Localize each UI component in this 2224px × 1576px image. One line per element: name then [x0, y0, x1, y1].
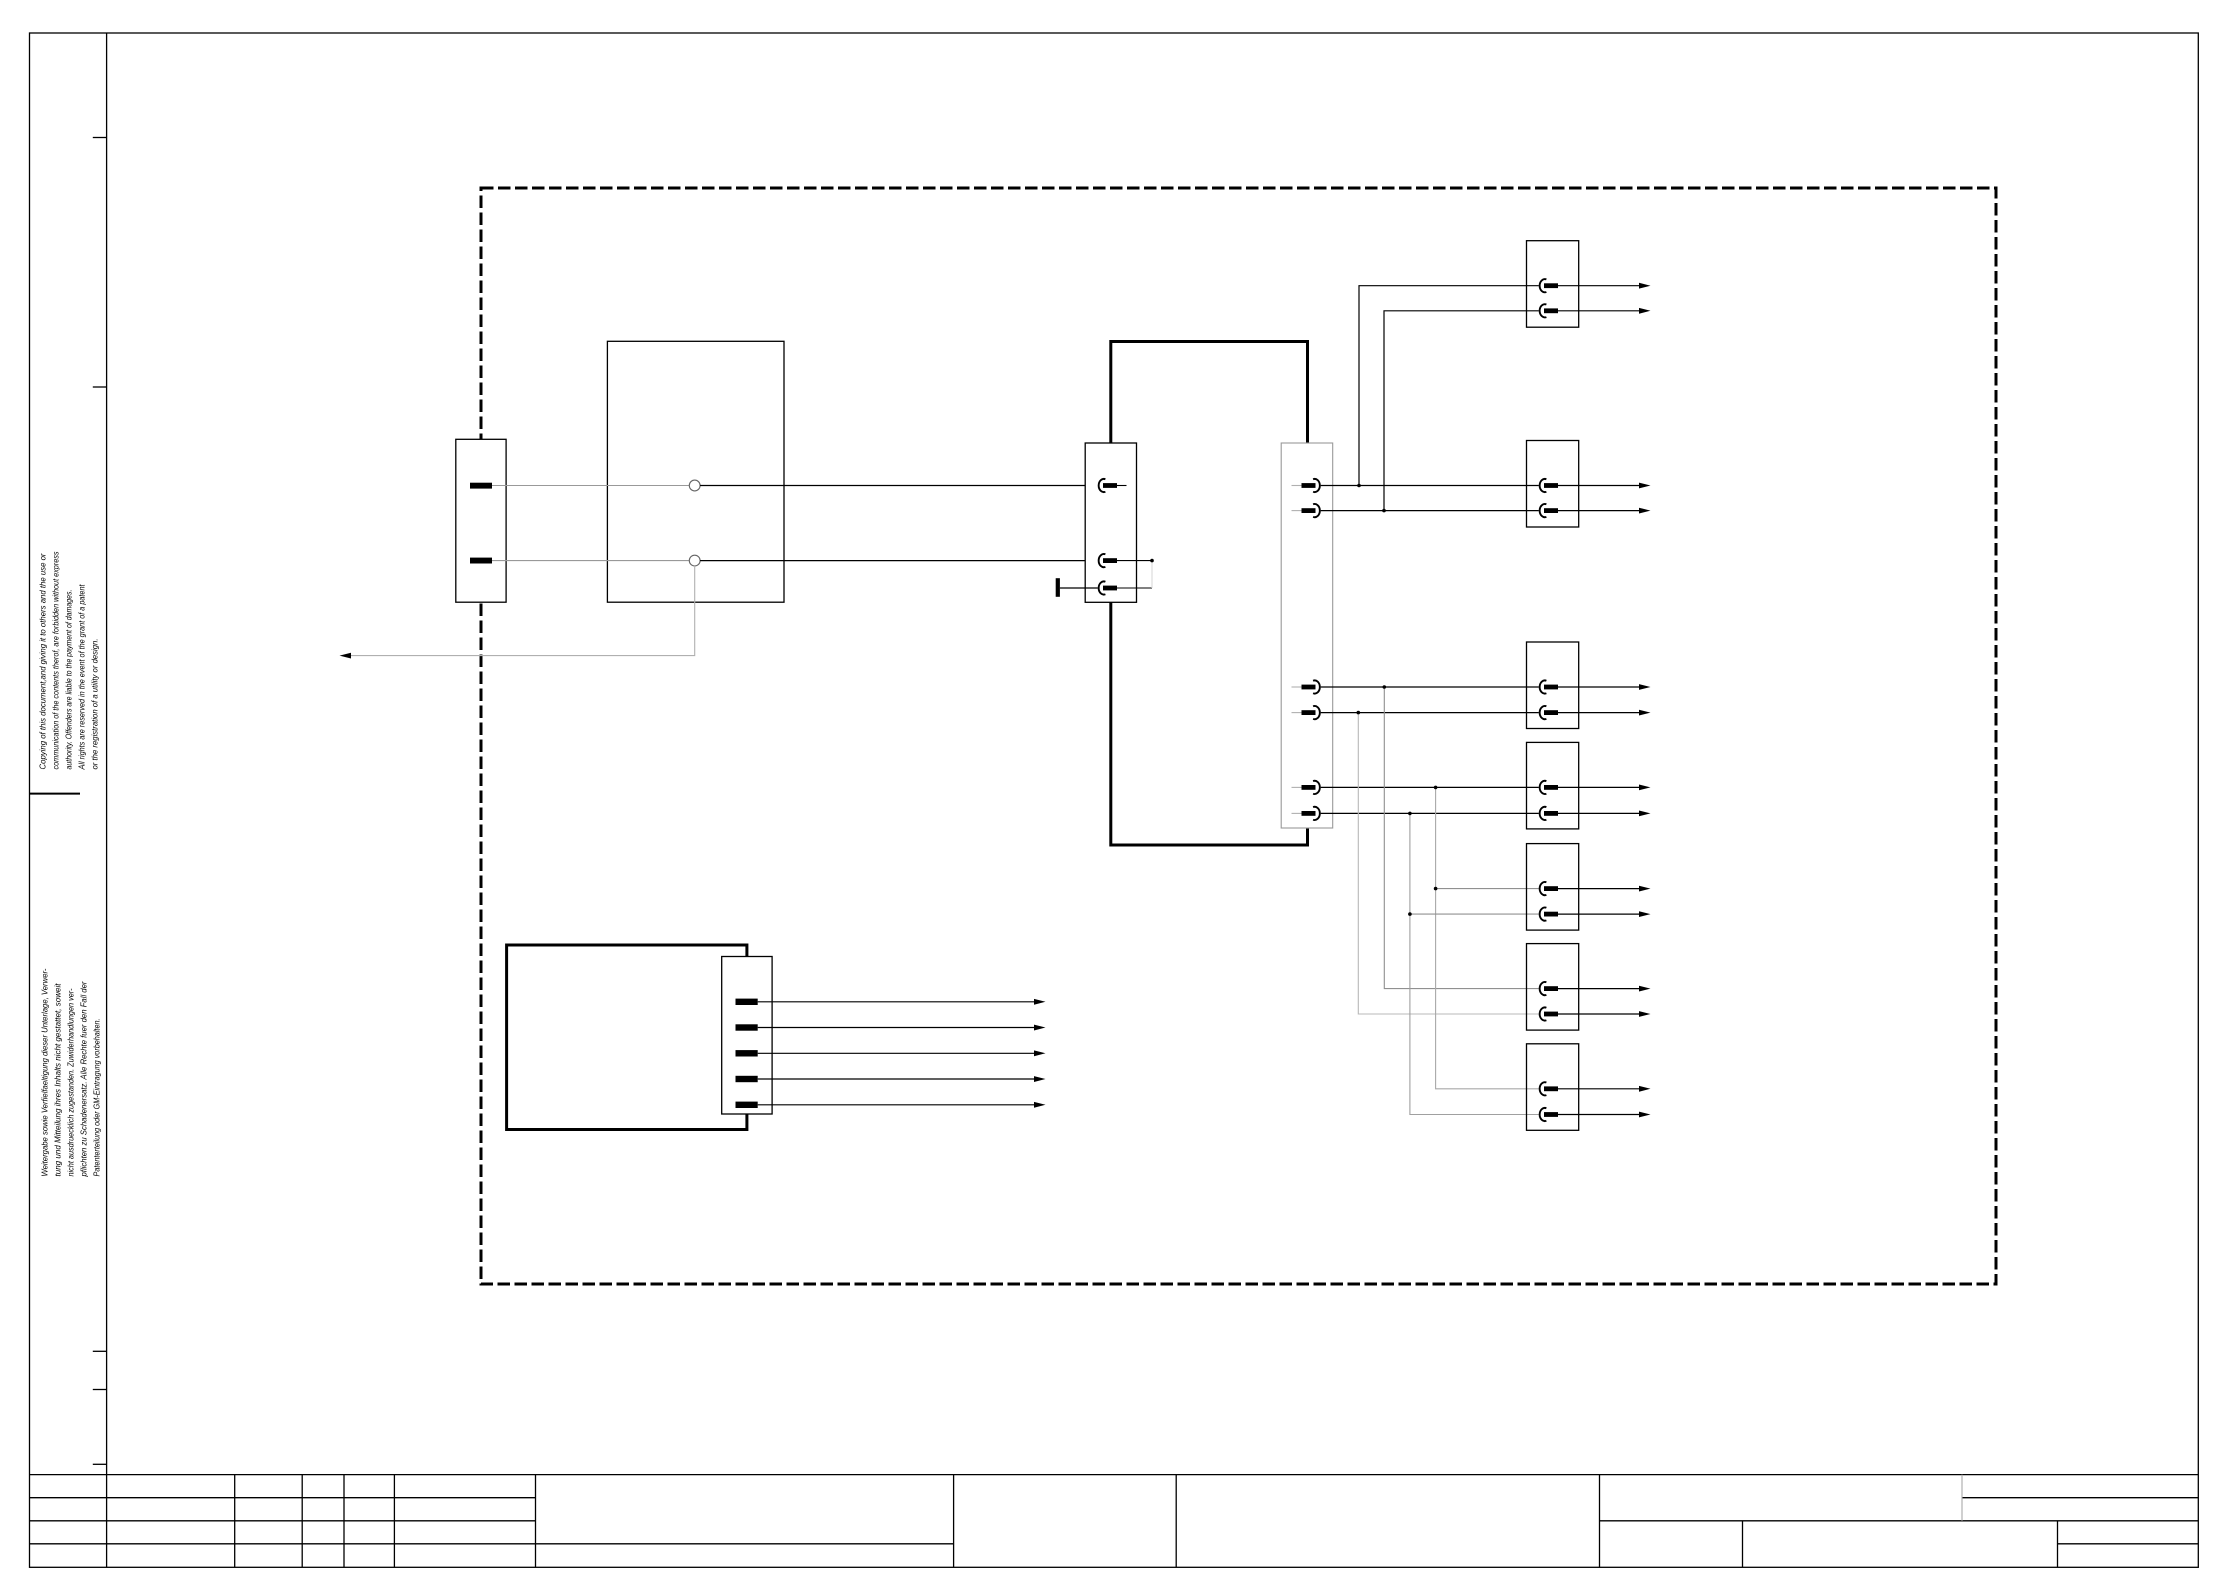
wire X2 pin2 to loads (net 2) [1321, 510, 1539, 512]
branch down net3 (grey) [1384, 687, 1539, 989]
junction net6 tap [1408, 912, 1412, 916]
branch down net4 (light grey) [1358, 713, 1539, 1014]
wire X2 pin6 (net 6) [1321, 812, 1539, 814]
svg-text:All rights are reserved in the: All rights are reserved in the event of … [76, 584, 86, 770]
wire out E1 pin 2 [1558, 310, 1640, 312]
wire X2 pin1 to loads (net 1) [1321, 485, 1539, 487]
link pin2 to pin3 (light) [1151, 561, 1153, 588]
arrowhead [1639, 886, 1651, 892]
fuse terminal 30a [470, 483, 492, 489]
X3 terminal 5 [736, 1102, 758, 1108]
load E6 pin 2 [1540, 1007, 1547, 1020]
load E7 pin 1 [1540, 1082, 1547, 1095]
arrowhead [1034, 1050, 1046, 1056]
arrowhead [1639, 283, 1651, 289]
wire out E5 pin 2 [1558, 913, 1640, 915]
load E7 pin 2 [1540, 1108, 1547, 1121]
svg-text:Copying of this document,and g: Copying of this document,and giving it t… [38, 552, 48, 769]
wire out X3 terminal 5 [758, 1104, 1035, 1106]
junction net5 tap [1434, 887, 1438, 891]
load E6 pin 1 [1540, 982, 1547, 995]
tap net5 to box5 pin1 (grey) [1436, 888, 1539, 890]
svg-text:or the registration of a utili: or the registration of a utility or desi… [89, 639, 99, 770]
margin fold ticks [93, 138, 107, 1465]
arrowhead [1639, 710, 1651, 716]
connector X2 pin 5 [1292, 786, 1302, 788]
wire out X3 terminal 4 [758, 1078, 1035, 1080]
copyright notice (english) [38, 551, 100, 770]
title block grid [30, 1475, 2199, 1568]
wire fuse to switch contact 2 (grey) [492, 560, 689, 562]
wire fuse to switch contact 1 (grey) [492, 485, 689, 487]
connector X2 pin 1 [1292, 485, 1302, 487]
arrowhead [1639, 911, 1651, 917]
fuse box F1 [456, 439, 506, 602]
centre fold mark [30, 793, 81, 795]
junction net1 [1357, 484, 1361, 488]
junction net4 [1357, 711, 1361, 715]
load box E1 [1527, 241, 1579, 328]
connector X1 [1085, 443, 1136, 602]
wire out X3 terminal 2 [758, 1027, 1035, 1029]
X3 terminal 2 [736, 1024, 758, 1030]
switch contact circle 1 [689, 480, 700, 491]
connector X2 pin 3 [1292, 686, 1302, 688]
junction dot pin2 [1150, 559, 1154, 563]
svg-text:nicht ausdruecklich zugestande: nicht ausdruecklich zugestanden. Zuwider… [66, 988, 76, 1176]
arrowhead [1639, 811, 1651, 817]
svg-text:Patenterteilung oder GM-Eintra: Patenterteilung oder GM-Eintragung vorbe… [92, 1019, 102, 1177]
load E1 pin 2 [1540, 304, 1547, 317]
wire out X3 terminal 1 [758, 1001, 1035, 1003]
arrowhead [1034, 1025, 1046, 1031]
load box E7 [1527, 1044, 1579, 1131]
load box E4 [1527, 742, 1579, 829]
wire return line (grey, to terminal 31) [345, 566, 695, 656]
wire stud to pin 3 [1060, 587, 1098, 589]
wire out E4 pin 2 [1558, 812, 1640, 814]
connector X3 strip [722, 957, 772, 1115]
load box E6 [1527, 944, 1579, 1031]
arrowhead [1034, 1102, 1046, 1108]
load E4 pin 2 [1540, 807, 1547, 820]
junction net6 [1408, 812, 1412, 816]
arrowhead [1639, 508, 1651, 514]
wire out E2 pin 1 [1558, 485, 1640, 487]
wire X2 pin3 to lamp row (net 3) [1321, 686, 1539, 688]
load E3 pin 2 [1540, 706, 1547, 719]
X3 terminal 4 [736, 1076, 758, 1082]
load box E5 [1527, 844, 1579, 931]
X3 terminal 3 [736, 1050, 758, 1056]
branch up net2 [1384, 311, 1539, 511]
tap net6 to box5 pin2 (grey) [1410, 913, 1539, 915]
load E2 pin 1 [1540, 479, 1547, 492]
load E5 pin 1 [1540, 882, 1547, 895]
junction net5 [1434, 786, 1438, 790]
wire X2 pin4 (net 4) [1321, 712, 1539, 714]
wire switch to connector pin 1 [700, 485, 1098, 487]
title block inner divider (light) [1961, 1475, 1963, 1521]
wire out E5 pin 1 [1558, 888, 1640, 890]
arrowhead [1639, 1011, 1651, 1017]
svg-text:Weitergabe sowie Verfielfaelti: Weitergabe sowie Verfielfaeltigung diese… [40, 968, 50, 1176]
fuse terminal 30b [470, 558, 492, 564]
arrowhead [1034, 1076, 1046, 1082]
load E4 pin 1 [1540, 781, 1547, 794]
wire switch to connector pin 2 [700, 560, 1098, 562]
connector X2 strip [1281, 443, 1333, 828]
load box E2 [1527, 441, 1579, 528]
branch down net6 (grey) [1410, 813, 1539, 1114]
load E5 pin 2 [1540, 908, 1547, 921]
arrowhead [1639, 1112, 1651, 1118]
junction net2 [1382, 509, 1386, 513]
X3 terminal 1 [736, 999, 758, 1005]
ignition switch S1 [607, 341, 784, 602]
branch up net1 [1359, 286, 1539, 486]
wire out E6 pin 1 [1558, 988, 1640, 990]
load E2 pin 2 [1540, 504, 1547, 517]
terminal 31 stud [1056, 578, 1060, 597]
vehicle boundary (dashed box) [481, 188, 1996, 1284]
arrowhead [1639, 986, 1651, 992]
wire out E3 pin 2 [1558, 712, 1640, 714]
connector X1 pin 3 [1099, 581, 1106, 594]
wire out E1 pin 1 [1558, 285, 1640, 287]
arrowhead [1639, 785, 1651, 791]
arrowhead [1639, 308, 1651, 314]
arrowhead [1639, 684, 1651, 690]
svg-text:tung und Mitteilung ihres Inha: tung und Mitteilung ihres Inhalts nicht … [53, 983, 63, 1177]
connector X1 pin 1 [1099, 479, 1106, 492]
junction net3 [1383, 685, 1387, 689]
copyright notice (german) [40, 968, 102, 1177]
arrowhead [1034, 999, 1046, 1005]
wire out E4 pin 1 [1558, 786, 1640, 788]
arrowhead [1639, 483, 1651, 489]
wire out E2 pin 2 [1558, 510, 1640, 512]
connector X2 pin 2 [1292, 510, 1302, 512]
svg-text:pflichten zu Schadenersatz. Al: pflichten zu Schadenersatz. Alle Rechte … [79, 980, 89, 1177]
load box E3 [1527, 642, 1579, 729]
branch down net5 (grey) [1436, 787, 1539, 1088]
wire out E7 pin 2 [1558, 1114, 1640, 1116]
wire out X3 terminal 3 [758, 1052, 1035, 1054]
load E3 pin 1 [1540, 680, 1547, 693]
wire X2 pin5 (net 5) [1321, 786, 1539, 788]
connector X1 pin 2 [1099, 554, 1106, 567]
connector X2 pin 4 [1292, 712, 1302, 714]
wire out E6 pin 2 [1558, 1013, 1640, 1015]
wire out E7 pin 1 [1558, 1088, 1640, 1090]
svg-text:communication of the contents: communication of the contents therof, ar… [51, 551, 61, 770]
connector X2 pin 6 [1292, 812, 1302, 814]
arrowhead left [340, 653, 352, 659]
module A2 (thick outline) [507, 945, 747, 1130]
svg-text:authority. Offenders are liabl: authority. Offenders are liable to the p… [64, 590, 74, 770]
wire out E3 pin 1 [1558, 686, 1640, 688]
switch contact circle 2 [689, 555, 700, 566]
control unit A1 (thick outline) [1111, 342, 1308, 846]
load E1 pin 1 [1540, 279, 1547, 292]
arrowhead [1639, 1086, 1651, 1092]
